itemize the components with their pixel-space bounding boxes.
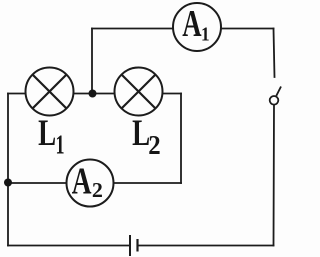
wire left rail <box>7 94 9 246</box>
wire bottom left of battery <box>8 245 130 247</box>
wire lamp row <box>8 93 181 95</box>
wire bottom right of battery <box>138 245 274 247</box>
lamp L2 <box>115 68 163 116</box>
switch S1 <box>270 87 281 105</box>
svg-text:A: A <box>182 4 202 46</box>
node junction left rail <box>4 179 12 187</box>
ammeter A1 <box>173 3 221 51</box>
wire top-left vertical down to junction <box>91 29 93 94</box>
battery B1 short plate <box>136 239 138 252</box>
switch blade <box>276 87 281 96</box>
svg-text:2: 2 <box>148 130 160 160</box>
wire ammeter A2 row <box>8 182 181 184</box>
svg-text:1: 1 <box>201 24 210 47</box>
svg-text:L: L <box>38 113 56 154</box>
svg-text:2: 2 <box>92 178 103 201</box>
label L1 <box>38 113 64 159</box>
wire right side of lamp loop <box>180 94 182 184</box>
lamp L1 <box>26 68 74 116</box>
svg-text:1: 1 <box>56 130 65 159</box>
wire right rail upper <box>274 29 275 78</box>
wire right rail lower <box>273 105 276 246</box>
switch contact circle <box>270 96 279 105</box>
ammeter A2 <box>67 160 114 207</box>
battery B1 long plate <box>129 235 131 256</box>
wire top horizontal <box>92 28 274 30</box>
node junction between L1 and L2 <box>89 90 97 98</box>
svg-text:A: A <box>72 160 92 202</box>
label L2 <box>132 113 161 160</box>
